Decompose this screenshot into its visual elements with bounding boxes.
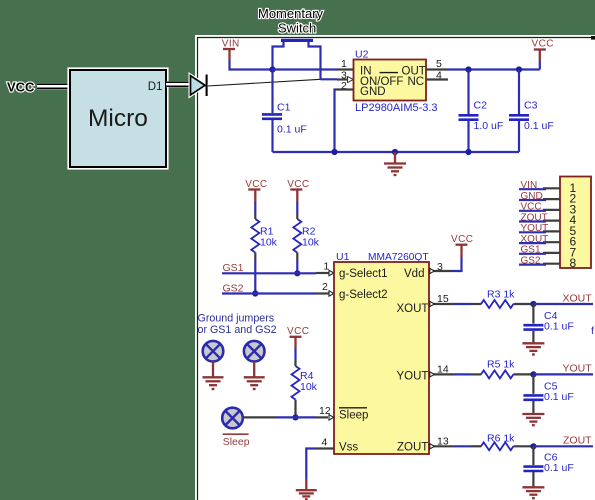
capacitor C3 [509, 70, 529, 153]
wire D1 to switch (diagonal) [208, 79, 321, 86]
wire to R5 [454, 373, 471, 375]
svg-text:Sleep: Sleep [339, 410, 368, 422]
svg-text:10k: 10k [260, 237, 278, 249]
svg-text:Vss: Vss [339, 442, 358, 454]
svg-text:0.1 uF: 0.1 uF [277, 124, 307, 136]
svg-text:1: 1 [324, 261, 330, 273]
svg-text:g-Select1: g-Select1 [339, 268, 388, 280]
pin 13 triangle [430, 444, 435, 449]
svg-text:1: 1 [341, 58, 347, 70]
svg-text:Momentary: Momentary [258, 6, 324, 21]
svg-text:XOUT: XOUT [397, 303, 429, 315]
svg-text:2: 2 [341, 80, 347, 92]
pin lead U2.4 (NC) [426, 78, 448, 80]
svg-text:4: 4 [436, 70, 442, 82]
ground (jumper J2) [203, 362, 224, 389]
note Ground jumpers [198, 313, 277, 336]
power VIN [222, 39, 240, 61]
svg-text:Ground jumpers: Ground jumpers [198, 313, 275, 325]
wire U2 out to VCC corner [447, 68, 540, 70]
jumper J4 (Sleep) [222, 408, 243, 429]
svg-text:GS2: GS2 [521, 255, 541, 266]
pin lead U1.1 [316, 272, 330, 274]
power VCC (top right) [532, 39, 554, 70]
junction rail x U2 gnd [331, 149, 337, 155]
svg-text:10k: 10k [300, 381, 318, 393]
capacitor C6 [523, 446, 543, 486]
svg-text:VCC: VCC [521, 202, 542, 213]
net stub ZOUT [519, 220, 546, 222]
header pin lead 1 [543, 187, 560, 189]
svg-text:4: 4 [322, 437, 328, 449]
svg-text:12: 12 [319, 405, 331, 417]
header pin lead 2 [543, 198, 560, 200]
ground (U1 Vss) [296, 479, 317, 499]
header pin lead 5 [543, 230, 560, 232]
svg-text:14: 14 [437, 364, 449, 376]
svg-text:GND: GND [521, 191, 543, 202]
wire to R3 [454, 303, 471, 305]
wire GS2 [222, 292, 316, 294]
wire R2 to GS1 [296, 260, 298, 274]
svg-text:g-Select2: g-Select2 [339, 289, 388, 301]
svg-text:R6 1k: R6 1k [487, 433, 515, 445]
wire switch to U2 pin3 [321, 78, 338, 80]
svg-text:2: 2 [322, 281, 328, 293]
svg-text:Sleep: Sleep [223, 436, 250, 448]
svg-text:XOUT: XOUT [563, 293, 593, 305]
pin 3 triangle (U1) [430, 268, 435, 273]
pin lead U2.3 [337, 78, 348, 80]
net stub YOUT [519, 231, 546, 233]
wire Vdd to VCC [452, 257, 462, 271]
junction rail x C2 [465, 149, 471, 155]
pin 12 triangle [329, 415, 334, 420]
wire XOUT [533, 303, 593, 305]
power VCC (above R4) [287, 326, 309, 349]
wire R1 to GS2 [254, 260, 256, 294]
wire U2 pin2 to ground rail [335, 90, 337, 153]
pin lead U1.13 [429, 445, 454, 447]
resistor R3 [481, 300, 533, 308]
ground (C4) [522, 343, 544, 354]
svg-text:YOUT: YOUT [397, 371, 429, 383]
svg-text:0.1 uF: 0.1 uF [544, 391, 574, 403]
wire VIN to node A [230, 60, 273, 70]
wire to R6 [454, 445, 471, 447]
pin lead U1.14 [429, 373, 454, 375]
junction XOUT [530, 301, 536, 307]
junction at C2 top [465, 66, 471, 72]
svg-text:or GS1 and GS2: or GS1 and GS2 [198, 324, 277, 336]
wire YOUT [533, 373, 593, 375]
svg-text:GND: GND [360, 86, 386, 98]
resistor R6 [481, 442, 533, 450]
power VCC (at U1 Vdd) [451, 234, 473, 257]
net stub GND [519, 199, 546, 201]
pin lead U2.5 [426, 68, 447, 70]
svg-text:R3 1k: R3 1k [487, 289, 515, 301]
jumper J2 (GS1) [203, 341, 224, 362]
pin lead U2.2 [336, 88, 354, 90]
svg-text:15: 15 [437, 293, 449, 305]
svg-text:C2: C2 [474, 100, 488, 112]
resistor R2 [293, 202, 301, 260]
svg-text:5: 5 [436, 58, 442, 70]
svg-text:f: f [591, 325, 594, 337]
svg-text:Micro: Micro [88, 105, 148, 132]
junction node A [269, 66, 275, 72]
svg-text:13: 13 [437, 436, 449, 448]
pin 15 triangle [430, 301, 435, 306]
capacitor C4 [523, 304, 543, 343]
svg-text:YOUT: YOUT [521, 223, 549, 234]
wire ZOUT [533, 445, 593, 447]
net stub GS2 [519, 264, 546, 266]
junction ZOUT [530, 443, 536, 449]
wire GS1 [222, 272, 316, 274]
svg-text:YOUT: YOUT [563, 363, 593, 375]
svg-text:VCC: VCC [287, 326, 309, 337]
header pin lead 4 [543, 220, 560, 222]
svg-text:ZOUT: ZOUT [397, 442, 428, 454]
header pin lead 3 [543, 209, 560, 211]
junction YOUT [530, 371, 536, 377]
pin lead U1.3 [429, 270, 452, 272]
svg-text:VCC: VCC [7, 80, 35, 95]
junction R4 x sleep wire [292, 414, 298, 420]
block Micro [69, 69, 168, 169]
schematic frame white sheet [195, 35, 595, 500]
svg-text:VCC: VCC [532, 39, 554, 50]
svg-text:VCC: VCC [451, 234, 473, 245]
header pin lead 6 [543, 241, 560, 243]
label Momentary Switch [258, 6, 324, 36]
ground (jumper J3) [244, 362, 265, 389]
junction rail x gnd symbol [392, 149, 398, 155]
ground (C5) [522, 414, 544, 425]
power VCC (above R1) [245, 179, 267, 202]
capacitor C2 [459, 70, 479, 153]
resistor R1 [251, 202, 259, 260]
jumper J3 (GS2) [244, 341, 265, 362]
junction R2 x GS1 [294, 270, 300, 276]
capacitor C1 [262, 70, 282, 153]
ground (under U2) [384, 152, 406, 175]
pin lead U2.1 [337, 68, 354, 70]
svg-text:Switch: Switch [278, 21, 316, 36]
junction at C3 top [516, 66, 522, 72]
wire VCC to Micro (double line) [37, 84, 70, 88]
power VCC (above R2) [287, 179, 309, 202]
wire sleep jumper to pin 12 [243, 416, 328, 418]
svg-text:0.1 uF: 0.1 uF [544, 462, 574, 474]
pin 14 triangle [430, 372, 435, 377]
svg-text:D1: D1 [148, 81, 163, 93]
svg-text:0.1 uF: 0.1 uF [544, 321, 574, 333]
svg-text:U2: U2 [355, 49, 369, 61]
svg-text:C1: C1 [277, 102, 291, 114]
wire Vss to ground [306, 449, 316, 480]
svg-text:NC: NC [408, 76, 425, 88]
switch S1 (momentary) [273, 39, 321, 80]
wire Micro to D1 (double line) [166, 82, 190, 86]
net stub VCC [519, 210, 546, 212]
svg-text:3: 3 [437, 261, 443, 273]
net stub XOUT [519, 242, 546, 244]
svg-text:10k: 10k [302, 237, 320, 249]
resistor R5 [481, 370, 533, 378]
pin 1 triangle [329, 270, 334, 275]
svg-text:0.1 uF: 0.1 uF [524, 120, 554, 132]
pin lead U1.4 [316, 447, 334, 449]
svg-text:ZOUT: ZOUT [563, 435, 592, 447]
svg-text:R5 1k: R5 1k [487, 359, 515, 371]
svg-text:U1: U1 [336, 251, 350, 263]
capacitor C5 [523, 374, 543, 413]
svg-text:1.0 uF: 1.0 uF [474, 120, 504, 132]
svg-text:Vdd: Vdd [404, 268, 424, 280]
junction R1 x GS2 [252, 290, 258, 296]
resistor R4 [292, 349, 300, 418]
wire ground rail [273, 151, 520, 153]
net stub VIN [519, 188, 546, 190]
svg-text:ZOUT: ZOUT [521, 212, 548, 223]
net label Sleep [223, 434, 250, 448]
diode D1 [191, 75, 207, 97]
svg-text:C3: C3 [524, 100, 538, 112]
ground (C6) [522, 487, 544, 498]
net stub GS1 [519, 253, 546, 255]
svg-text:MMA7260QT: MMA7260QT [368, 252, 429, 263]
header pin lead 8 [543, 263, 560, 265]
svg-text:LP2980AIM5-3.3: LP2980AIM5-3.3 [355, 102, 438, 114]
header pin lead 7 [543, 252, 560, 254]
pin 2 triangle [329, 291, 334, 296]
svg-text:GS1: GS1 [521, 245, 541, 256]
header J1 (8-pin) [560, 177, 591, 271]
pin lead U1.15 [429, 303, 454, 305]
IC U1 MMA7260QT [334, 262, 429, 454]
svg-text:VIN: VIN [521, 180, 538, 191]
svg-text:XOUT: XOUT [521, 234, 549, 245]
pin lead U1.2 [316, 292, 330, 294]
IC U2 LP2980 [354, 60, 427, 101]
pin 3 triangle [348, 77, 354, 83]
wire node A to U2 pin1 [273, 68, 338, 70]
svg-text:8: 8 [570, 256, 577, 270]
